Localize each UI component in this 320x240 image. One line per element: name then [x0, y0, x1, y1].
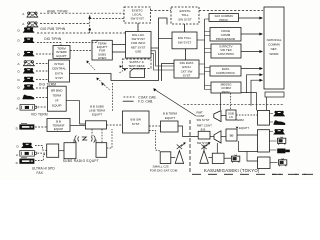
svg-text:SW SYST: SW SYST	[178, 17, 192, 21]
television TV1	[232, 155, 240, 163]
telephone T13 (digital)	[17, 143, 33, 149]
wire W59 BB to tall box	[237, 134, 258, 136]
box U20 FAX COMMN PROC	[209, 14, 239, 22]
video camera T11	[16, 105, 36, 111]
legend fo cable	[123, 100, 134, 102]
svg-text:FOR DIG SAT COM: FOR DIG SAT COM	[150, 169, 178, 173]
telephone T8 (digital)	[18, 77, 35, 83]
wire W38 dashed U6 to U17 to national	[151, 10, 264, 12]
box U12 subs radio A	[47, 144, 59, 157]
svg-text:EXTN: EXTN	[55, 71, 63, 75]
svg-text:PROC: PROC	[219, 18, 229, 22]
wire W6 dashed	[36, 63, 49, 65]
arrow A3 dashed leader	[120, 66, 127, 71]
antenna AN2	[200, 142, 211, 163]
svg-text:NATIONAL: NATIONAL	[267, 38, 282, 42]
box U10 B B SW SYST	[123, 111, 150, 133]
boundary kasumigaseki bottom dashed	[192, 173, 320, 175]
wire W23 U3 to BB subs box	[66, 101, 85, 124]
telephone T9 (digital terminal)	[18, 84, 35, 90]
label RMT CONT B B	[197, 123, 212, 131]
wire W30 dashed U10 to sat	[149, 131, 160, 152]
wire W21 nested L a	[151, 51, 174, 66]
television TV3	[279, 158, 287, 166]
wire W5 dashed	[36, 53, 53, 55]
svg-text:PROCESSOR: PROCESSOR	[216, 37, 236, 41]
svg-text:ULTRA HI SPD: ULTRA HI SPD	[32, 167, 55, 171]
telephone T18	[274, 129, 285, 135]
wire W31 U11 to RMT2	[178, 126, 198, 137]
wire W14 dashed	[38, 152, 47, 154]
box U2 INTGD CENTRAL EXTN SYST	[49, 60, 70, 82]
telephone T3 (digital public)	[18, 27, 35, 33]
svg-text:EQUPT: EQUPT	[92, 113, 103, 117]
svg-text:SUBS RADIO EQUPT: SUBS RADIO EQUPT	[63, 159, 99, 163]
wire W51 MESSG wrap to box1	[241, 93, 257, 111]
wire W50 riser L2 to national	[251, 80, 260, 106]
concentrator F2	[214, 131, 221, 143]
box U11 bb term equpt	[161, 121, 179, 132]
handset T17	[273, 120, 285, 125]
boundary kasumigaseki vertical	[189, 120, 191, 174]
wire W29 dashed U10 to U11	[149, 125, 161, 127]
box U8 SUPPLY & TEST DESK	[122, 59, 151, 69]
box U3 BR BND TERM I/F EQUIP	[48, 86, 67, 111]
wire W33 C up dashed	[107, 129, 112, 148]
wire W57 U28 to F2	[210, 136, 214, 138]
box U15 small sat station	[160, 152, 171, 164]
box U6 EXISTG LOCAL SW SYST (dashed)	[124, 7, 151, 23]
wire W44 U19 to bus	[199, 64, 205, 74]
box U26 flat under national	[265, 92, 284, 97]
svg-text:USE: USE	[135, 50, 141, 54]
wire W2a dashed riser	[90, 14, 124, 33]
wire W35 RMT2 down to antenna2	[203, 145, 205, 150]
wire W16 dashed U1 to U5	[70, 50, 92, 52]
svg-text:COMMN: COMMN	[268, 43, 280, 47]
wire W19 bus to DIG TOLL	[159, 38, 173, 40]
box U16 sat recv	[212, 153, 224, 163]
arrow A4 dashed leader	[97, 78, 105, 85]
desk symbol under U8	[130, 69, 145, 78]
wire W20 U7 to bus	[151, 47, 159, 49]
wire W17 U6 to U7	[137, 23, 139, 32]
wire W27 dashed U9 down b	[101, 129, 103, 143]
arrow A1 up	[88, 16, 91, 19]
wire W55 F1 to sub ln	[221, 115, 226, 117]
wire W26 dashed U9 down a	[91, 129, 93, 138]
wire W42 bus stubs	[205, 19, 212, 90]
wire W12 dashed	[35, 126, 47, 128]
wire W52 flat box down	[266, 97, 268, 110]
svg-text:EQUPT: EQUPT	[56, 54, 67, 58]
video camera T19	[277, 149, 290, 154]
telephone T4 (digital)	[18, 37, 35, 43]
wire W15 dashed	[35, 154, 47, 160]
wire W28 dashed boundary to U10	[111, 83, 113, 111]
label RMT CONT SW SYST	[197, 110, 210, 122]
wire W37 U16 to TV	[224, 157, 231, 159]
wire W3 dashed	[37, 32, 126, 34]
box U5 TERM EQUPT FOR SUBS LINES	[92, 40, 112, 60]
svg-text:LN: LN	[229, 115, 233, 119]
svg-text:FAX: FAX	[37, 171, 44, 175]
wire W43 U18 to bus	[197, 39, 205, 41]
wire W48 DATA to national	[241, 68, 260, 70]
svg-text:TEST DESK: TEST DESK	[128, 64, 145, 68]
wire W39 U17 to U18	[184, 24, 186, 32]
wire W18 U5 to U7	[112, 45, 125, 53]
telephone T2 (analog)	[22, 22, 38, 27]
svg-text:BB: BB	[230, 133, 234, 137]
wire W62 stubs U31	[270, 132, 277, 151]
svg-text:DIG TOLL: DIG TOLL	[178, 36, 192, 40]
svg-text:F.O. CAB.: F.O. CAB.	[138, 100, 153, 104]
telephone T7 (digital)	[18, 68, 35, 74]
svg-text:SW SYST: SW SYST	[197, 118, 210, 122]
svg-text:SW SYST: SW SYST	[197, 141, 210, 145]
svg-text:SW SYST: SW SYST	[178, 41, 192, 45]
svg-text:KASUMIGASEKI (TOKYO): KASUMIGASEKI (TOKYO)	[204, 168, 260, 173]
arrow A6 dashed leader	[102, 84, 110, 91]
box U9 BB subs line term equpt	[85, 121, 106, 129]
svg-text:EQUPT: EQUPT	[239, 126, 249, 130]
label B B SUBS LINE TERM EQUPT	[89, 105, 105, 117]
wire W63 stub U32	[270, 162, 278, 164]
wire W58 F2 to BB	[221, 136, 226, 138]
wire W4 dashed	[37, 40, 97, 45]
box U7 DIG LOC SW SYST FOR INFO NET SYST USE	[126, 32, 152, 59]
box U25 NATIONAL COMMN NETWORK	[264, 7, 284, 89]
wire W1 dashed	[40, 12, 124, 14]
box U32 subs line equip 3	[258, 157, 271, 169]
wire W35b funnel2 to sat recv	[216, 143, 218, 153]
fax machine T12	[16, 124, 35, 131]
wire W61 stubs U30	[270, 114, 274, 123]
wire W41 vertical bus	[204, 19, 206, 90]
television TV2	[278, 137, 286, 145]
svg-text:ANAL T/PHN: ANAL T/PHN	[47, 9, 68, 13]
svg-text:DIG T/PHN: DIG T/PHN	[44, 37, 62, 41]
svg-text:SYST: SYST	[183, 74, 191, 78]
wire W56 dashed sub ln to box1	[236, 114, 258, 116]
wire W46 VOICE to national	[241, 33, 260, 35]
antenna AN1	[175, 142, 186, 163]
telephone T5 (digital)	[18, 51, 35, 57]
svg-text:BR BND: BR BND	[51, 89, 63, 93]
wire W11 dashed	[38, 106, 48, 108]
telephone T6 (analog)	[18, 61, 35, 66]
svg-text:WORK: WORK	[269, 52, 278, 56]
fax machine T15	[16, 158, 35, 165]
svg-text:COMM PROC: COMM PROC	[216, 71, 236, 75]
label B B TERM EQUPT	[163, 112, 178, 120]
box U21 VOICE COMM PROCESSOR	[210, 28, 241, 42]
box U4 B B TERM/IF EQUIP	[47, 119, 70, 132]
label SMALL C/S FOR DIG SAT COM	[150, 164, 178, 172]
wire W60 BB down feeds	[239, 141, 258, 161]
wire W36 antenna2 to U16	[208, 157, 212, 159]
svg-text:B B SW: B B SW	[130, 118, 141, 122]
telephone T16	[274, 111, 285, 117]
svg-text:COM PROC: COM PROC	[218, 52, 235, 56]
wire W32 A to B	[59, 150, 64, 152]
box U24 MESSG COMM PROC	[211, 82, 241, 94]
wire W13 dashed	[35, 146, 47, 151]
box U14 subs radio C	[96, 143, 107, 158]
svg-text:B B: B B	[201, 127, 206, 131]
arrow A5 dashed leader	[120, 69, 126, 73]
wire W10 dashed	[36, 97, 48, 99]
long dashed trunk line	[184, 104, 285, 106]
box U13 subs radio B	[64, 143, 76, 159]
box U1 TERM INTERF EQUPT	[53, 46, 70, 59]
box U23 DATA COMM PROC	[210, 66, 241, 76]
box U19 DIG DATA EXCH CKT SW SYST	[174, 60, 199, 78]
svg-text:EQUPT: EQUPT	[165, 116, 176, 120]
radio link symbol	[74, 136, 96, 143]
box U29 B B	[226, 129, 237, 141]
svg-text:PROC: PROC	[222, 90, 232, 94]
svg-text:LINES: LINES	[98, 56, 107, 60]
svg-text:TERM: TERM	[236, 118, 245, 122]
wire W45 FAX to national	[239, 17, 260, 19]
bottom right tick marks	[272, 173, 307, 175]
wire W9 dashed	[36, 87, 48, 89]
video camera T14	[16, 151, 36, 157]
wire W40 U18 to U19	[185, 49, 187, 60]
arrow A7 long diagonal leader	[155, 90, 196, 117]
svg-text:EQUIP: EQUIP	[52, 104, 61, 108]
box U22 INTRCTV VID TEX COM PROC	[211, 44, 241, 58]
wire W49 riser L1 to national	[247, 75, 260, 93]
concentrator F1	[214, 111, 221, 122]
wire W54 MESSG down dashed	[230, 93, 232, 110]
wire W34 U15 to antenna1	[171, 157, 175, 159]
wire W53 MESSG down solid	[220, 93, 222, 110]
boundary stub right	[162, 64, 175, 82]
box U28 rmt cont bb sw	[198, 131, 210, 139]
box U31 subs line equip 2 (tall)	[258, 130, 270, 152]
svg-text:I/F: I/F	[55, 99, 59, 103]
box U18 DIG TOLL SW SYST	[172, 32, 197, 49]
wire W47 INTRCTV to national	[241, 51, 260, 53]
svg-text:SW SYST: SW SYST	[130, 17, 144, 21]
box U27 SUB LN	[226, 110, 236, 120]
handset T10	[18, 95, 35, 101]
svg-text:INTGD: INTGD	[54, 62, 64, 66]
svg-text:NET-: NET-	[271, 47, 278, 51]
svg-text:CENTRAL: CENTRAL	[52, 67, 66, 71]
box U30 subs line equip 1	[258, 110, 270, 125]
box U17 EXISTG TOLL SW SYST (dashed)	[171, 7, 199, 24]
wire W2 dashed	[40, 23, 90, 25]
svg-text:SYST: SYST	[55, 76, 63, 80]
wire W25 dashed U9 to U10	[107, 124, 123, 126]
svg-text:VID TERM: VID TERM	[31, 112, 48, 116]
wire W22 nested L b	[151, 54, 174, 70]
svg-text:TERM: TERM	[53, 94, 62, 98]
arrow A2 dashed leader	[87, 61, 95, 70]
svg-text:EQUIP: EQUIP	[54, 127, 63, 131]
boundary polyline left office	[70, 18, 168, 81]
node J1	[89, 28, 91, 30]
svg-text:SYST: SYST	[132, 122, 140, 126]
svg-text:DIG PUB T/PHN: DIG PUB T/PHN	[41, 27, 66, 31]
wire W8 dashed	[36, 79, 49, 81]
legend coax cable	[124, 96, 135, 98]
telephone T1 (analog)	[22, 12, 38, 17]
wire W24 U4 to BB subs box	[70, 124, 85, 126]
wire W7 dashed	[36, 70, 49, 72]
